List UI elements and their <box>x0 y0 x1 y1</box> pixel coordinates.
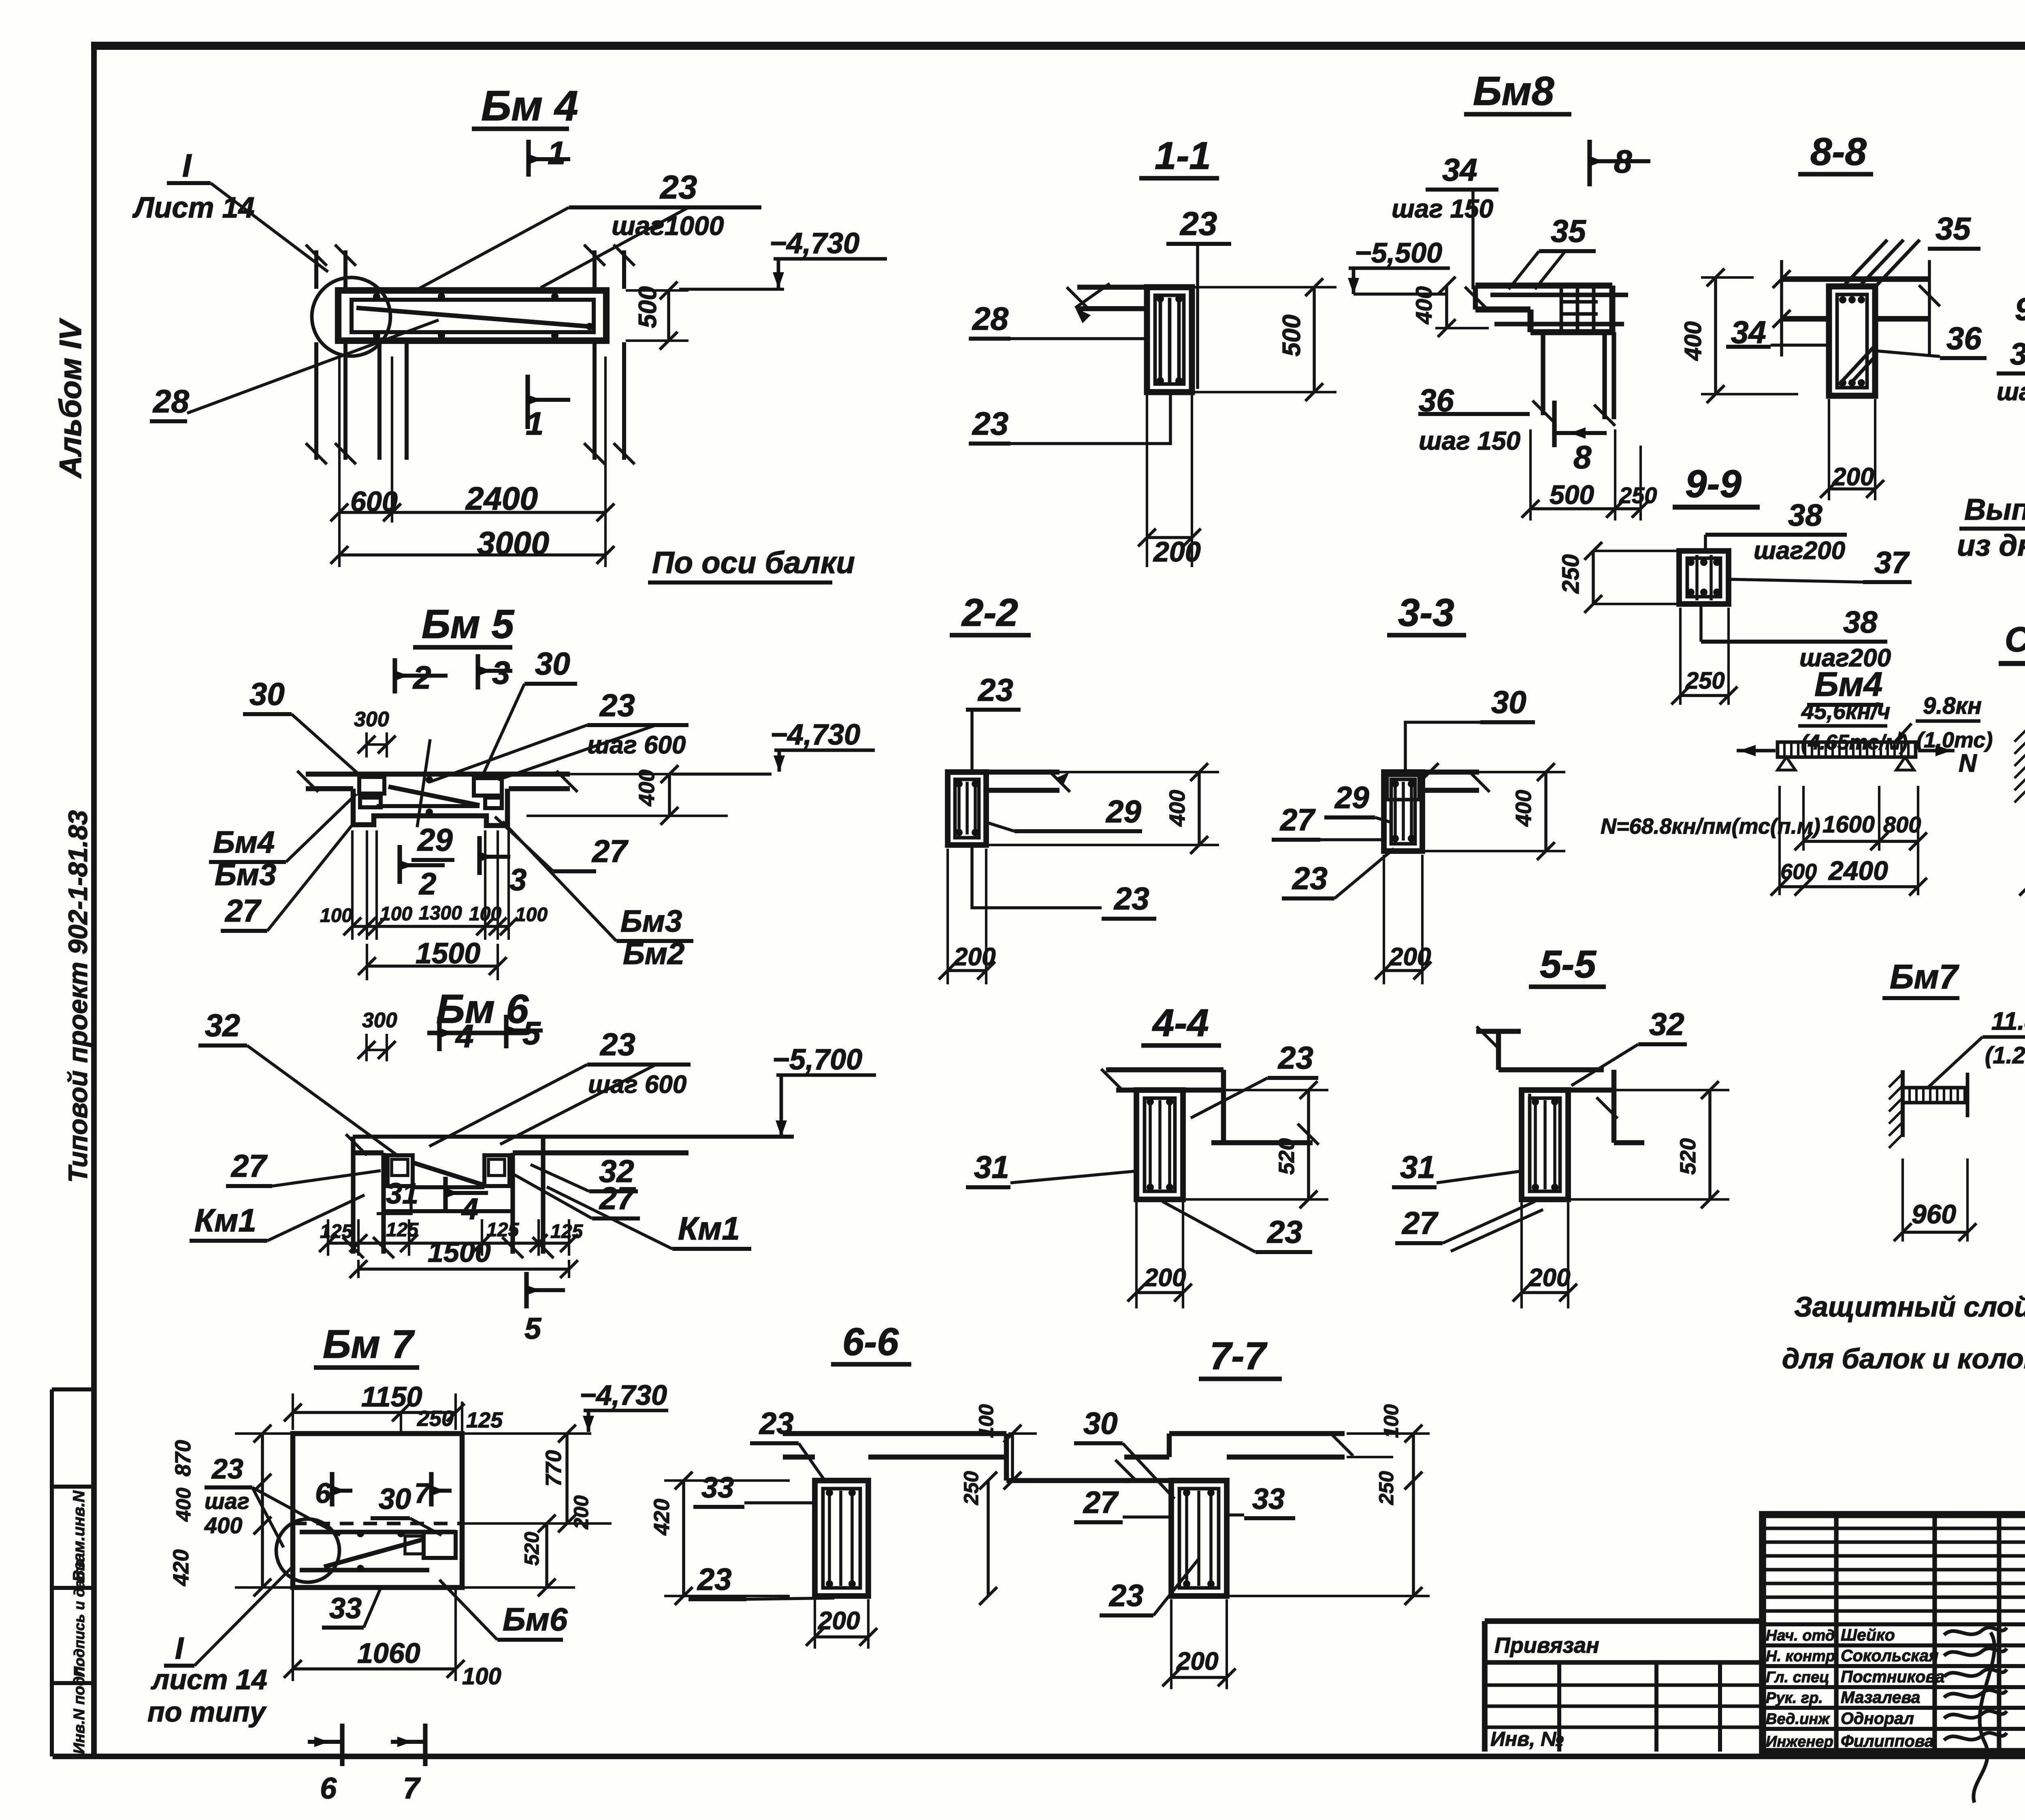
svg-text:34: 34 <box>1442 152 1477 188</box>
svg-text:125: 125 <box>466 1408 503 1432</box>
svg-text:400: 400 <box>172 1487 195 1522</box>
svg-text:500: 500 <box>634 286 662 328</box>
svg-text:шаг 200: шаг 200 <box>1997 378 2025 406</box>
svg-text:N: N <box>1959 749 1977 777</box>
svg-text:100: 100 <box>469 903 501 925</box>
svg-text:8: 8 <box>1614 143 1632 179</box>
svg-text:Типовой проект 902-1-81.83: Типовой проект 902-1-81.83 <box>63 810 93 1183</box>
svg-text:23: 23 <box>697 1562 732 1597</box>
svg-text:−4,730: −4,730 <box>770 719 860 751</box>
svg-text:125: 125 <box>486 1219 519 1241</box>
svg-text:31: 31 <box>386 1178 418 1210</box>
svg-text:По оси балки: По оси балки <box>652 546 855 580</box>
svg-text:27: 27 <box>599 1180 636 1216</box>
svg-text:2400: 2400 <box>465 480 538 516</box>
svg-text:4: 4 <box>455 1018 474 1054</box>
svg-text:Филиппова: Филиппова <box>1841 1732 1934 1750</box>
svg-text:200: 200 <box>1528 1264 1570 1292</box>
svg-text:2400: 2400 <box>1828 856 1888 885</box>
svg-text:I: I <box>175 1631 184 1666</box>
svg-text:Шейко: Шейко <box>1841 1626 1895 1644</box>
svg-text:27: 27 <box>1279 803 1316 837</box>
svg-text:Бм7: Бм7 <box>1890 958 1959 996</box>
svg-text:500: 500 <box>1278 315 1306 356</box>
svg-text:400: 400 <box>204 1513 242 1538</box>
svg-text:400: 400 <box>1511 790 1536 827</box>
svg-text:для балок и колонн принят 25мм: для балок и колонн принят 25мм. <box>1782 1343 2025 1374</box>
svg-text:28: 28 <box>972 301 1008 337</box>
svg-text:45,6кн/ч: 45,6кн/ч <box>1801 698 1890 724</box>
svg-text:−4,730: −4,730 <box>580 1379 667 1411</box>
svg-text:1300: 1300 <box>419 903 462 924</box>
svg-text:125: 125 <box>386 1219 419 1241</box>
svg-text:200: 200 <box>818 1607 860 1635</box>
svg-text:из днища): из днища) <box>1957 529 2025 562</box>
svg-text:300: 300 <box>354 708 389 731</box>
svg-text:Привязан: Привязан <box>1494 1633 1599 1658</box>
svg-text:27: 27 <box>224 893 262 928</box>
svg-text:27: 27 <box>1083 1485 1119 1520</box>
svg-text:250: 250 <box>1375 1471 1398 1505</box>
svg-text:−5,700: −5,700 <box>772 1043 862 1076</box>
svg-text:27: 27 <box>230 1148 268 1184</box>
svg-text:2: 2 <box>412 659 431 696</box>
svg-text:23: 23 <box>599 687 635 723</box>
svg-text:30: 30 <box>535 646 570 681</box>
svg-text:−4,730: −4,730 <box>769 227 859 260</box>
svg-text:1500: 1500 <box>416 937 480 970</box>
svg-text:23: 23 <box>972 405 1008 442</box>
svg-text:770: 770 <box>541 1450 566 1487</box>
svg-text:250: 250 <box>1558 554 1584 594</box>
svg-text:Бм3: Бм3 <box>215 858 276 892</box>
svg-text:1150: 1150 <box>361 1381 422 1412</box>
svg-text:Бм8: Бм8 <box>1473 68 1554 114</box>
svg-text:Инв, №: Инв, № <box>1490 1728 1564 1750</box>
svg-text:200: 200 <box>1144 1264 1186 1292</box>
svg-text:1060: 1060 <box>357 1637 420 1669</box>
svg-text:38: 38 <box>1843 605 1878 640</box>
svg-text:420: 420 <box>169 1549 193 1586</box>
svg-text:35: 35 <box>1551 213 1586 249</box>
svg-text:29: 29 <box>1334 781 1369 815</box>
svg-text:600: 600 <box>350 486 398 517</box>
svg-text:1-1: 1-1 <box>1155 134 1211 177</box>
svg-text:420: 420 <box>650 1499 674 1536</box>
svg-text:2-2: 2-2 <box>961 591 1018 634</box>
svg-text:29: 29 <box>1105 794 1141 829</box>
svg-text:23: 23 <box>977 672 1013 708</box>
svg-text:23: 23 <box>1179 205 1217 242</box>
svg-text:Схемы расчетных нагрузок: Схемы расчетных нагрузок <box>2005 620 2025 659</box>
svg-text:250: 250 <box>960 1471 983 1505</box>
svg-text:30: 30 <box>1083 1406 1118 1441</box>
svg-text:100: 100 <box>320 905 352 926</box>
svg-text:520: 520 <box>1275 1138 1299 1175</box>
svg-text:520: 520 <box>1676 1138 1700 1175</box>
svg-text:1: 1 <box>526 405 544 442</box>
svg-text:200: 200 <box>570 1495 593 1530</box>
svg-text:870: 870 <box>171 1440 195 1476</box>
svg-text:шаг 150: шаг 150 <box>1392 194 1493 223</box>
svg-text:шаг200: шаг200 <box>1754 537 1845 565</box>
svg-text:Бм 6: Бм 6 <box>436 986 529 1032</box>
svg-text:250: 250 <box>1685 668 1725 694</box>
svg-text:3000: 3000 <box>477 525 549 561</box>
svg-text:Бм 5: Бм 5 <box>422 602 515 647</box>
svg-text:38: 38 <box>2010 337 2025 371</box>
svg-text:28: 28 <box>152 383 189 419</box>
svg-text:36: 36 <box>1946 320 1982 356</box>
svg-text:100: 100 <box>515 904 548 926</box>
svg-text:23: 23 <box>659 169 697 206</box>
svg-text:600: 600 <box>1780 860 1817 884</box>
svg-text:23: 23 <box>1113 881 1149 916</box>
svg-text:Бм3: Бм3 <box>620 904 682 939</box>
svg-text:35: 35 <box>1935 211 1971 246</box>
svg-text:Сокольская: Сокольская <box>1841 1646 1938 1665</box>
svg-text:1500: 1500 <box>428 1236 491 1268</box>
svg-text:33: 33 <box>701 1472 734 1504</box>
svg-text:32: 32 <box>1649 1006 1684 1042</box>
svg-text:Постникова: Постникова <box>1841 1667 1944 1686</box>
svg-text:Защитный слой бетона для рабоч: Защитный слой бетона для рабочей арматур… <box>1794 1291 2025 1323</box>
svg-text:I: I <box>182 147 192 183</box>
svg-text:100: 100 <box>380 903 412 925</box>
svg-text:100: 100 <box>975 1404 998 1438</box>
svg-text:Инженер: Инженер <box>1766 1733 1833 1750</box>
svg-text:23: 23 <box>1108 1579 1144 1613</box>
svg-text:32: 32 <box>205 1007 240 1043</box>
svg-text:30: 30 <box>249 676 285 712</box>
svg-text:38: 38 <box>1788 498 1823 533</box>
svg-text:N=68.8кн/пм(тс(п.м): N=68.8кн/пм(тс(п.м) <box>1601 814 1820 839</box>
svg-text:125: 125 <box>550 1221 583 1242</box>
svg-text:(1.2тс/м): (1.2тс/м) <box>1985 1042 2025 1069</box>
svg-text:шаг1000: шаг1000 <box>612 211 724 241</box>
svg-text:Бм6: Бм6 <box>503 1601 568 1637</box>
svg-text:Однорал: Однорал <box>1841 1709 1914 1728</box>
svg-text:4-4: 4-4 <box>1152 1001 1209 1045</box>
svg-text:23: 23 <box>211 1453 243 1485</box>
svg-text:6: 6 <box>315 1477 331 1509</box>
svg-text:2: 2 <box>418 867 436 901</box>
svg-text:3: 3 <box>492 655 510 691</box>
svg-text:Бм4: Бм4 <box>1814 665 1882 703</box>
svg-text:3-3: 3-3 <box>1398 591 1454 634</box>
svg-text:33: 33 <box>1252 1483 1285 1515</box>
svg-text:11.8кн/м: 11.8кн/м <box>1991 1007 2025 1035</box>
svg-text:125: 125 <box>320 1221 353 1242</box>
svg-text:шаг 150: шаг 150 <box>1419 426 1520 455</box>
svg-text:1600: 1600 <box>1823 811 1875 838</box>
svg-text:Рук. гр.: Рук. гр. <box>1766 1690 1823 1707</box>
svg-text:960: 960 <box>1912 1199 1956 1229</box>
svg-text:7-7: 7-7 <box>1210 1334 1268 1378</box>
svg-text:Гл. спец: Гл. спец <box>1766 1669 1829 1686</box>
svg-text:400: 400 <box>1411 286 1437 324</box>
svg-text:100: 100 <box>1380 1404 1403 1438</box>
svg-text:1: 1 <box>548 135 566 171</box>
svg-text:23: 23 <box>599 1026 635 1062</box>
svg-text:30: 30 <box>1491 684 1526 720</box>
svg-text:Инв.N подл.: Инв.N подл. <box>71 1662 88 1754</box>
svg-text:9: 9 <box>2015 291 2025 327</box>
svg-text:34: 34 <box>1731 314 1766 350</box>
svg-text:200: 200 <box>1832 463 1874 491</box>
svg-text:37: 37 <box>1874 546 1910 580</box>
svg-text:23: 23 <box>1292 860 1328 896</box>
svg-text:250: 250 <box>1619 482 1657 508</box>
svg-text:Вед.инж: Вед.инж <box>1766 1711 1830 1728</box>
svg-text:Бм2: Бм2 <box>623 937 684 971</box>
svg-text:200: 200 <box>1176 1647 1218 1675</box>
svg-text:400: 400 <box>1680 321 1706 361</box>
svg-text:Км1: Км1 <box>194 1202 256 1238</box>
svg-text:23: 23 <box>1266 1214 1302 1250</box>
svg-text:23: 23 <box>1277 1040 1313 1075</box>
svg-text:27: 27 <box>1401 1205 1439 1241</box>
svg-text:9-9: 9-9 <box>1685 462 1742 506</box>
svg-text:Бм 4: Бм 4 <box>481 82 578 130</box>
svg-text:6: 6 <box>320 1771 337 1805</box>
svg-text:31: 31 <box>974 1149 1009 1185</box>
svg-text:Лист 14: Лист 14 <box>132 192 255 224</box>
svg-text:30: 30 <box>379 1483 411 1515</box>
svg-text:100: 100 <box>462 1663 501 1690</box>
svg-text:Км1: Км1 <box>678 1210 740 1246</box>
svg-text:шаг: шаг <box>205 1488 249 1514</box>
svg-text:8: 8 <box>1573 439 1592 475</box>
svg-text:400: 400 <box>635 770 659 807</box>
svg-text:по типу: по типу <box>147 1696 267 1728</box>
svg-text:300: 300 <box>362 1009 397 1032</box>
svg-text:8-8: 8-8 <box>1810 130 1867 173</box>
svg-text:200: 200 <box>1389 943 1431 971</box>
svg-text:−5,500: −5,500 <box>1355 237 1442 269</box>
svg-text:лист 14: лист 14 <box>151 1664 267 1695</box>
svg-text:500: 500 <box>1550 480 1594 510</box>
svg-text:(1.0тс): (1.0тс) <box>1916 728 1993 752</box>
svg-text:27: 27 <box>591 833 629 869</box>
svg-text:3: 3 <box>509 863 526 897</box>
svg-text:33: 33 <box>329 1592 362 1625</box>
svg-text:Подпись и дата: Подпись и дата <box>71 1559 87 1677</box>
svg-text:Альбом IV: Альбом IV <box>53 318 88 479</box>
svg-text:800: 800 <box>1883 812 1921 837</box>
svg-text:400: 400 <box>1165 790 1189 827</box>
svg-text:Бм4: Бм4 <box>213 825 275 860</box>
svg-text:520: 520 <box>520 1532 543 1566</box>
svg-text:4: 4 <box>461 1192 478 1226</box>
svg-text:5-5: 5-5 <box>1540 943 1597 986</box>
svg-text:Бм 7: Бм 7 <box>323 1322 415 1366</box>
svg-text:31: 31 <box>1400 1149 1435 1185</box>
svg-text:6-6: 6-6 <box>842 1320 899 1363</box>
svg-text:5: 5 <box>522 1015 541 1051</box>
svg-text:7: 7 <box>403 1771 421 1805</box>
svg-text:9.8кн: 9.8кн <box>1923 693 1982 719</box>
svg-text:Н. контр: Н. контр <box>1766 1648 1835 1665</box>
svg-text:200: 200 <box>953 943 995 971</box>
svg-text:7: 7 <box>414 1477 431 1509</box>
svg-text:200: 200 <box>1153 536 1201 568</box>
svg-text:29: 29 <box>417 822 453 858</box>
svg-text:Мазалева: Мазалева <box>1841 1688 1920 1707</box>
svg-text:Выпуски: Выпуски <box>1964 493 2025 526</box>
svg-text:5: 5 <box>524 1312 542 1345</box>
svg-text:250: 250 <box>417 1406 454 1431</box>
svg-text:Нач. отд: Нач. отд <box>1766 1627 1835 1644</box>
